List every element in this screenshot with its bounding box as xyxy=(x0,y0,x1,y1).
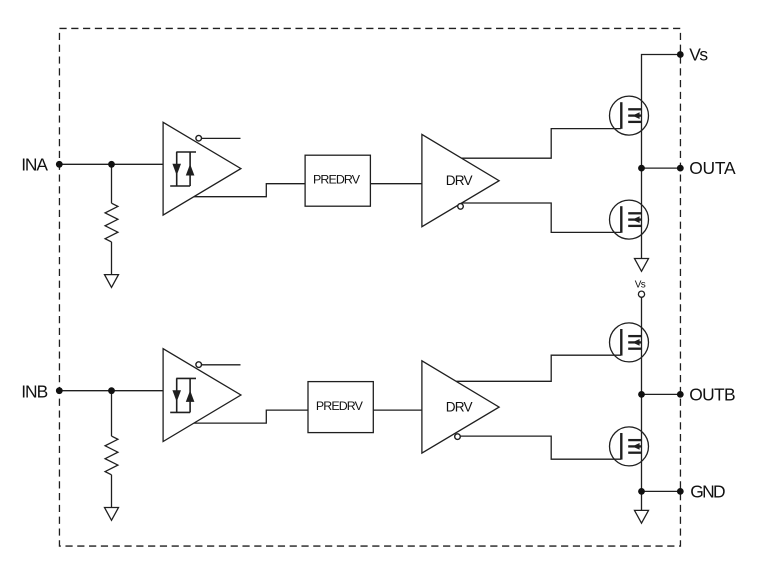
svg-text:GND: GND xyxy=(690,482,725,502)
svg-text:Vs: Vs xyxy=(635,280,646,291)
svg-text:OUTA: OUTA xyxy=(689,158,736,178)
svg-text:Vs: Vs xyxy=(689,44,708,64)
svg-text:INA: INA xyxy=(21,155,48,175)
svg-text:INB: INB xyxy=(21,382,48,402)
svg-text:OUTB: OUTB xyxy=(689,385,735,405)
